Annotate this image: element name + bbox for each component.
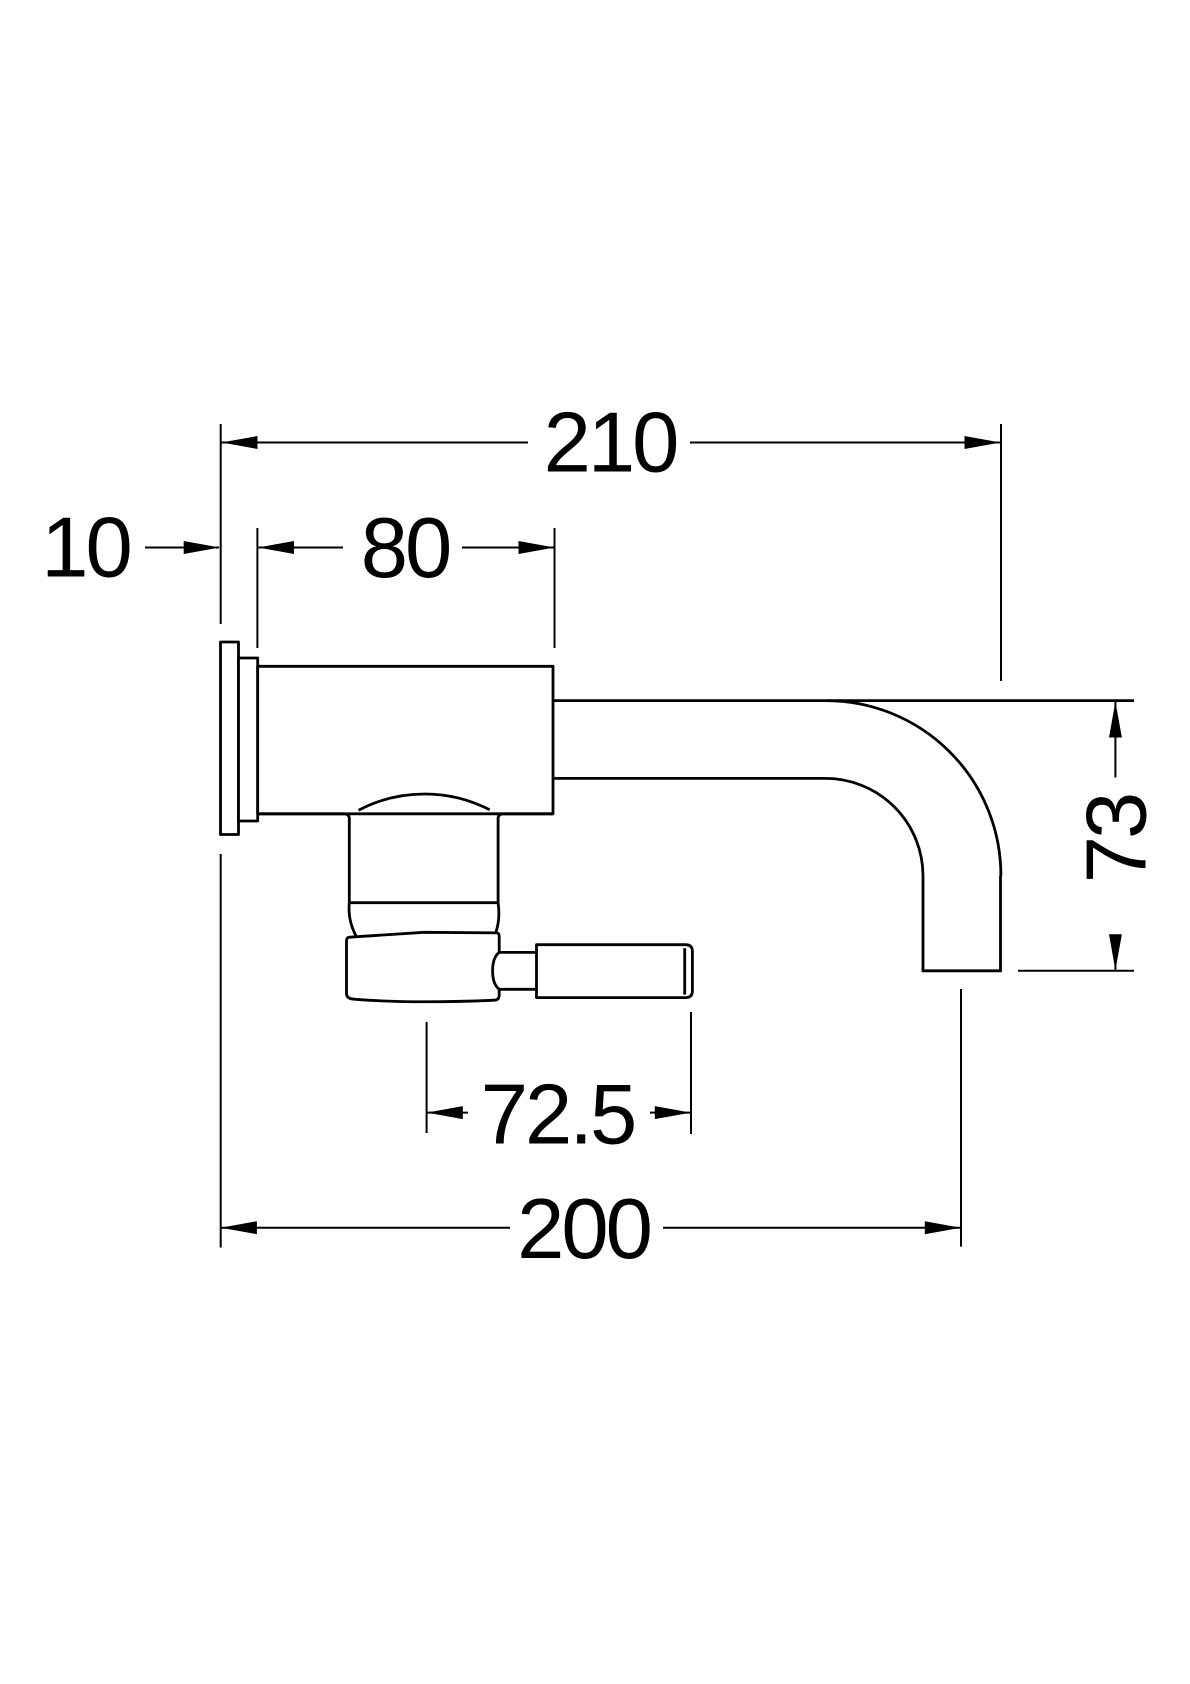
spout top edge (doubles as 73 top extension line): [553, 699, 1134, 702]
arrowhead 210 left: [222, 436, 258, 449]
handle stem bottom edge: [499, 988, 537, 991]
arrowhead 10 (points right at wall): [184, 541, 220, 554]
dimension line 73 top segment: [1114, 702, 1116, 778]
dimension line 73 bottom segment: [1114, 936, 1116, 970]
handle stem top edge: [499, 951, 537, 954]
tap body: [258, 666, 553, 814]
spout inner bend: [826, 778, 924, 876]
arrowhead 80 left (points left at flange face): [258, 541, 294, 554]
arrowhead 73 bottom (points down): [1109, 934, 1122, 970]
extension line 72.5 left: [426, 1022, 428, 1133]
arrowhead 200 right: [925, 1221, 961, 1234]
svg-text:210: 210: [544, 396, 677, 491]
dimension line 72.5 left stub: [428, 1112, 468, 1114]
svg-text:200: 200: [517, 1182, 650, 1277]
extension line body end x=554: [554, 528, 556, 648]
extension line spout tip right x=1001 (for 210): [1000, 424, 1002, 681]
dimension line 72.5 right stub: [650, 1112, 690, 1114]
dimension line 210 right segment: [690, 442, 1000, 444]
extension line wall bottom (to 200 dim): [220, 854, 222, 1248]
extension line flange front x=257: [256, 528, 258, 648]
handle hub: [347, 932, 500, 1001]
extension line 72.5 right: [690, 1012, 692, 1134]
svg-text:80: 80: [361, 501, 450, 596]
dimension 10 leader line: [145, 547, 219, 549]
spout outer bend: [826, 701, 1001, 876]
wall flange ring: [239, 658, 258, 821]
body bottom edge left with fillet into neck: [258, 814, 350, 903]
neck bottom horizontal line: [349, 901, 498, 904]
arrowhead 200 left: [221, 1221, 257, 1234]
wall flange plate: [221, 642, 239, 835]
arrowhead 210 right: [965, 436, 1001, 449]
handle end cap line: [683, 948, 686, 994]
extension line 200 right: [960, 989, 962, 1247]
spout tip bottom edge: [922, 969, 1002, 972]
dimension line 210 left segment: [222, 442, 529, 444]
arrowhead 80 right: [519, 541, 555, 554]
spout bottom edge: [553, 777, 826, 780]
spout outer vertical at tip: [999, 876, 1002, 971]
svg-text:73: 73: [1070, 795, 1165, 884]
valve dome arc inside body: [359, 794, 490, 810]
dimension line 80 right stub: [462, 547, 554, 549]
extension line 73 bottom: [1018, 970, 1134, 972]
arrowhead 73 top (points up): [1109, 702, 1122, 738]
extension line wall top (left of 210 and 10 dims): [220, 424, 222, 624]
dimension line 80 left stub: [258, 547, 343, 549]
arrowhead 72.5 right: [655, 1106, 691, 1119]
svg-text:10: 10: [41, 501, 130, 596]
dimension line 200 left segment: [222, 1227, 511, 1229]
dimension line 200 right segment: [663, 1227, 960, 1229]
body bottom edge right with fillet into neck: [498, 814, 553, 903]
arrowhead 72.5 left: [427, 1106, 463, 1119]
bonnet left side: [349, 903, 356, 936]
spout inner vertical at tip: [922, 876, 925, 971]
handle lever: [537, 945, 693, 998]
bonnet right side: [496, 903, 499, 933]
svg-text:72.5: 72.5: [481, 1067, 634, 1162]
